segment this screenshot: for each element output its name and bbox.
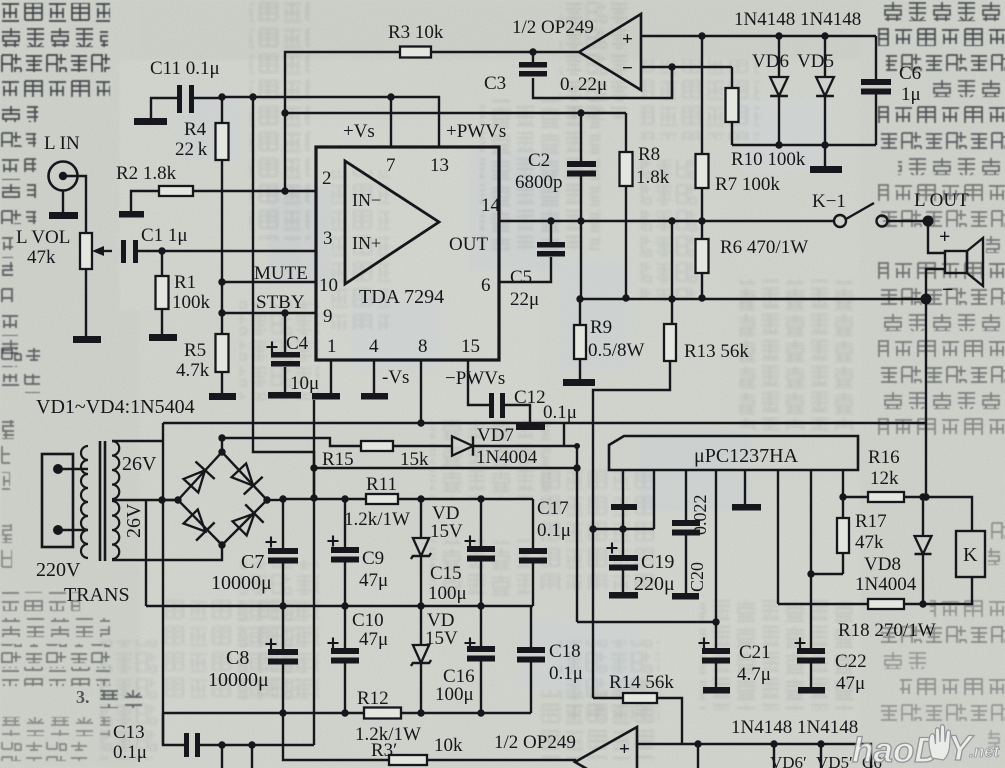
bridge right vertex xyxy=(263,496,270,503)
wire C4 bottom lead xyxy=(284,367,286,392)
svg-text:VD6: VD6 xyxy=(752,51,789,72)
ground bar under pot xyxy=(73,336,101,343)
wire long vertical C11 to bridge xyxy=(253,97,314,498)
capacitor C3 xyxy=(519,62,547,77)
junction R17 bottom node xyxy=(807,570,814,577)
junction C15 bottom xyxy=(477,602,484,609)
wire R18 line xyxy=(778,603,924,605)
svg-text:1.8k: 1.8k xyxy=(636,167,670,188)
wire C2 leads xyxy=(580,113,582,221)
svg-text:R9: R9 xyxy=(590,317,612,338)
wire R13 leads xyxy=(593,221,672,698)
µPC pin wire 8 to R16 xyxy=(842,470,844,497)
wire C19 bottom lead xyxy=(622,570,624,592)
svg-text:VD8: VD8 xyxy=(864,554,901,575)
wire C18 top lead xyxy=(530,606,532,647)
svg-text:1N4148 1N4148: 1N4148 1N4148 xyxy=(734,9,861,30)
plus sign C22 xyxy=(795,638,806,649)
wire pin 1 lead xyxy=(330,360,332,393)
L IN jack center pin xyxy=(59,172,67,180)
svg-text:14: 14 xyxy=(481,195,501,216)
resistor R4 xyxy=(216,123,229,160)
svg-text:47k: 47k xyxy=(855,532,884,553)
junction C3/R13 at minus input xyxy=(668,63,675,70)
wire line A tie at x564 xyxy=(563,423,565,446)
node speaker minus xyxy=(921,294,932,305)
svg-text:C6: C6 xyxy=(899,63,921,84)
capacitor C18 xyxy=(517,647,545,663)
junction +V tap xyxy=(279,495,286,502)
resistor R9 xyxy=(574,325,586,359)
junction VD6 bottom xyxy=(775,141,782,148)
wire -V bottom rail xyxy=(163,712,531,714)
connector 220V mains plug xyxy=(42,454,73,547)
svg-text:26V: 26V xyxy=(123,503,145,538)
svg-text:R16: R16 xyxy=(868,447,900,468)
wire C1 to TDA pin 3 xyxy=(138,250,316,252)
soft bluish scan washes xyxy=(180,90,830,690)
capacitor C22 xyxy=(797,648,825,664)
µPC pin wire 2 xyxy=(653,470,655,529)
svg-text:C11 0.1μ: C11 0.1μ xyxy=(150,58,220,79)
svg-text:47k: 47k xyxy=(27,247,56,268)
svg-text:haoD: haoD xyxy=(852,731,940,768)
wire -Vs vertical x313 xyxy=(313,400,315,745)
µPC pin wire 3 C20 xyxy=(685,470,687,520)
capacitor C19 xyxy=(609,555,638,571)
op-amp U1 1/2 OP249 triangle xyxy=(579,14,641,90)
capacitor C4 xyxy=(271,352,300,367)
wire ch2 plus input line xyxy=(637,744,871,768)
capacitor C21 xyxy=(702,648,730,664)
ground bar under pin 1 xyxy=(312,393,340,400)
svg-text:R17: R17 xyxy=(855,511,887,532)
junction -V tap xyxy=(158,496,165,503)
svg-text:C20: C20 xyxy=(687,562,707,592)
wire VD8 leads xyxy=(922,497,924,604)
wire L OUT to speaker plus xyxy=(928,221,945,253)
bridge top vertex xyxy=(218,448,225,455)
wire speaker minus lead xyxy=(926,269,945,299)
capacitor C6 xyxy=(861,79,891,95)
svg-text:C2: C2 xyxy=(528,150,550,171)
diode VD6 xyxy=(770,77,788,96)
svg-text:VD6′: VD6′ xyxy=(770,753,807,768)
µPC pin wire 6 to R18 line xyxy=(777,470,779,604)
svg-text:C7: C7 xyxy=(241,551,264,573)
svg-text:0.5/8W: 0.5/8W xyxy=(588,340,645,361)
capacitor C15 xyxy=(467,546,495,562)
wire R13 top lead xyxy=(671,67,673,98)
wire bridge-top stub xyxy=(221,438,223,452)
ground bar under jack xyxy=(49,212,78,219)
wire C17 bottom lead xyxy=(532,563,534,606)
wire VD7 return to +V rail xyxy=(314,446,577,468)
svg-text:10μ: 10μ xyxy=(290,373,319,394)
mains plug pin upper xyxy=(53,464,63,474)
junction long vertical to bridge xyxy=(249,93,256,100)
junction R1 top xyxy=(158,247,165,254)
transformer T1 secondary winding lower xyxy=(112,501,119,559)
resistor R13 xyxy=(664,324,676,361)
svg-text:10k: 10k xyxy=(434,735,463,756)
resistor R14 xyxy=(623,693,657,703)
svg-text:R2 1.8k: R2 1.8k xyxy=(116,163,177,184)
junction C7 bottom xyxy=(279,602,286,609)
svg-text:0.022: 0.022 xyxy=(690,495,710,536)
resistor R17 xyxy=(837,518,849,553)
diode VD5 xyxy=(816,77,834,96)
svg-text:1/2 OP249: 1/2 OP249 xyxy=(512,17,594,38)
capacitor C2 xyxy=(567,161,596,177)
ground bar under R5 xyxy=(209,393,236,400)
svg-text:R6 470/1W: R6 470/1W xyxy=(720,237,808,258)
wire pin 4 lead xyxy=(373,360,375,393)
plus sign C10 xyxy=(328,638,339,649)
svg-text:R8: R8 xyxy=(638,144,660,165)
svg-text:0.1μ: 0.1μ xyxy=(113,742,147,763)
wire R14 right xyxy=(657,698,682,744)
svg-text:C12: C12 xyxy=(514,387,546,408)
svg-text:IN−: IN− xyxy=(352,190,381,210)
svg-text:15: 15 xyxy=(461,336,480,357)
wire center tap line xyxy=(112,499,178,501)
wire VD6 leads xyxy=(778,36,780,145)
wire C7 top lead xyxy=(282,499,284,548)
left margin heading 3. xyxy=(76,687,90,707)
junction C5 top xyxy=(547,217,554,224)
µPC pin wire 7 to R17 node xyxy=(810,470,812,574)
wire C4 top lead xyxy=(284,313,286,352)
svg-text:4: 4 xyxy=(369,336,379,357)
transformer T1 primary winding xyxy=(81,446,88,558)
wire pot bottom to ground xyxy=(85,269,87,336)
svg-text:220μ: 220μ xyxy=(634,573,675,595)
wire C19 top lead xyxy=(622,529,624,555)
plus sign C7 xyxy=(266,537,277,548)
junction C2 bottom xyxy=(577,217,584,224)
wire C13 left stub xyxy=(163,713,184,745)
svg-text:0.1μ: 0.1μ xyxy=(543,402,577,423)
plus sign C19 xyxy=(607,543,618,554)
junction VD6' top xyxy=(694,740,701,747)
wire C6 top lead xyxy=(875,36,877,79)
junction pin7 wire xyxy=(387,93,394,100)
junction VD7 return corner xyxy=(573,464,580,471)
svg-text:R13 56k: R13 56k xyxy=(684,341,749,362)
wire R17 node to R18 line xyxy=(811,574,843,604)
svg-text:C17: C17 xyxy=(537,498,569,519)
wire x285 to IN- node xyxy=(284,113,286,191)
svg-text:STBY: STBY xyxy=(256,292,305,313)
svg-text:0. 22μ: 0. 22μ xyxy=(560,74,607,95)
ground bar under diode bus xyxy=(810,166,842,173)
svg-text:22μ: 22μ xyxy=(510,289,539,310)
resistor R15 xyxy=(361,441,393,451)
junction C16 bottom xyxy=(477,709,484,716)
terminal bar under C22 xyxy=(798,687,825,694)
wire R3' line left xyxy=(283,713,389,760)
junction ch2 stub 2 xyxy=(248,741,255,748)
wire C10 bottom lead xyxy=(344,663,346,713)
mains plug pin lower xyxy=(53,525,63,535)
µPC pin wire 4 xyxy=(715,470,717,622)
svg-text:0.1μ: 0.1μ xyxy=(537,520,571,541)
svg-text:26V: 26V xyxy=(122,453,157,475)
svg-text:C10: C10 xyxy=(352,610,384,631)
wire C5 bottom to pin 6 xyxy=(499,257,551,282)
switch K-1 right contact xyxy=(877,216,888,227)
svg-text:3.: 3. xyxy=(76,687,90,707)
wire R2 to TDA pin 2 xyxy=(193,190,316,192)
wire C22 bottom lead xyxy=(810,663,812,687)
svg-text:OUT: OUT xyxy=(449,234,488,255)
wire switch to L OUT node xyxy=(888,220,928,222)
svg-text:9: 9 xyxy=(323,306,333,327)
svg-text:47μ: 47μ xyxy=(359,629,388,650)
wire C3 bottom loop to minus input xyxy=(533,67,672,98)
junction relay drive top xyxy=(922,493,929,500)
svg-text:R4: R4 xyxy=(184,119,207,140)
junction VD5' top xyxy=(770,740,777,747)
wire C5 top lead xyxy=(550,221,552,242)
wire R9 sense vertical xyxy=(580,221,582,299)
svg-text:10000μ: 10000μ xyxy=(211,572,272,594)
wire R3 to feedback vertical xyxy=(285,52,400,113)
svg-text:.net: .net xyxy=(969,742,1001,761)
svg-text:+: + xyxy=(939,226,950,248)
right margin printed text column xyxy=(878,2,1005,747)
relay K coil box xyxy=(956,531,985,577)
junction bridge top stub xyxy=(218,434,225,441)
plus sign C15 xyxy=(465,536,476,547)
capacitor C13 xyxy=(184,733,200,757)
svg-text:10000μ: 10000μ xyxy=(208,669,269,691)
svg-text:R18 270/1W: R18 270/1W xyxy=(838,620,936,641)
wire plus input line xyxy=(641,35,876,37)
transformer T1 core xyxy=(100,441,105,561)
wire VD7 cathode run xyxy=(473,445,577,447)
svg-text:TRANS: TRANS xyxy=(64,584,130,606)
wire R8 leads xyxy=(625,113,627,298)
junction C19 top xyxy=(619,525,626,532)
svg-text:1: 1 xyxy=(327,336,337,357)
bridge diode VD1 upper-left xyxy=(181,461,214,494)
svg-text:1μ: 1μ xyxy=(901,84,921,105)
wire C21 bottom lead xyxy=(715,663,717,687)
svg-text:K: K xyxy=(963,544,978,566)
capacitor C7 xyxy=(268,548,298,564)
svg-text:R10 100k: R10 100k xyxy=(731,149,806,170)
terminal bar µPC pin5 xyxy=(732,504,761,511)
junction feedback x285 xyxy=(281,109,288,116)
capacitor C16 xyxy=(467,646,495,662)
svg-text:10: 10 xyxy=(319,275,338,296)
wire STBY line to pin 9 xyxy=(222,312,316,314)
svg-text:100k: 100k xyxy=(172,292,211,313)
svg-text:R11: R11 xyxy=(366,474,397,495)
wire C15 top lead xyxy=(480,499,482,546)
wire C10 top lead xyxy=(344,606,346,648)
wire C8 top lead xyxy=(282,606,284,649)
transformer T1 secondary winding upper xyxy=(112,441,119,499)
junction R4 top xyxy=(218,93,225,100)
wire C11 left lead xyxy=(151,98,177,118)
wire to switch K-1 xyxy=(833,220,835,222)
svg-text:R5: R5 xyxy=(184,340,206,361)
wire -V vertical x163 xyxy=(162,423,164,745)
svg-text:8: 8 xyxy=(418,336,428,357)
svg-text:1N4004: 1N4004 xyxy=(476,447,538,468)
zener diode VD 15V lower xyxy=(411,645,431,666)
resistor R1 xyxy=(156,276,169,309)
svg-text:K−1: K−1 xyxy=(812,191,846,212)
switch K-1 lever xyxy=(846,203,874,219)
wire OUT rail from pin 14 xyxy=(499,220,834,222)
junction VD5 top xyxy=(821,32,828,39)
junction R3 feedback node xyxy=(529,48,536,55)
wire C15 bottom lead xyxy=(480,561,482,606)
svg-text:VD5′: VD5′ xyxy=(816,753,853,768)
svg-text:L OUT: L OUT xyxy=(914,190,969,211)
wire C12 right lead xyxy=(505,405,530,424)
junction C15 top xyxy=(477,495,484,502)
wire secondary bottom line xyxy=(112,545,222,560)
svg-text:22 k: 22 k xyxy=(175,139,208,160)
wire C6' stub xyxy=(820,744,822,768)
junction VD5 bottom xyxy=(821,141,828,148)
wire C9 bottom lead xyxy=(344,562,346,606)
svg-text:−: − xyxy=(942,279,953,301)
resistor R7 xyxy=(696,154,709,188)
µPC pin wire 1 lower xyxy=(622,510,624,529)
faint bleed-through text patches xyxy=(100,0,860,760)
junction zener1 bottom xyxy=(417,602,424,609)
svg-text:1N4004: 1N4004 xyxy=(855,574,917,595)
svg-text:13: 13 xyxy=(430,155,449,176)
speaker LS1 body xyxy=(945,251,967,273)
wire C21 top lead xyxy=(715,622,717,648)
junction STBY left xyxy=(218,309,225,316)
resistor R3' xyxy=(389,755,427,765)
wire R1 leads xyxy=(161,251,163,334)
junction R13 crossing on sense line xyxy=(668,295,675,302)
svg-text:47μ: 47μ xyxy=(836,673,865,694)
junction VD8 bottom xyxy=(919,600,926,607)
terminal bar under C21 xyxy=(703,687,730,694)
junction zener2 bottom xyxy=(417,709,424,716)
wire 0V mid rail xyxy=(146,605,533,607)
wire +V rail y499 xyxy=(283,498,533,500)
wire C16 top lead xyxy=(480,606,482,646)
svg-text:C13: C13 xyxy=(113,722,145,743)
junction protection sense to µPC xyxy=(589,525,596,532)
resistor R3 xyxy=(400,47,431,58)
wire C18 bottom lead xyxy=(530,662,532,713)
svg-text:C1 1μ: C1 1μ xyxy=(141,225,188,246)
svg-text:+: + xyxy=(619,739,630,760)
capacitor C20 xyxy=(672,520,700,536)
junction R9 top on sense line xyxy=(576,295,583,302)
svg-text:C19: C19 xyxy=(641,551,674,573)
capacitor C9 xyxy=(331,547,359,563)
svg-text:C15: C15 xyxy=(430,563,462,584)
capacitor C5 xyxy=(537,242,565,257)
wire sense column x926 xyxy=(925,299,927,497)
switch K-1 left contact xyxy=(834,215,846,227)
resistor R6 xyxy=(696,239,709,273)
svg-text:7: 7 xyxy=(386,155,396,176)
wire R16 line xyxy=(843,497,972,531)
svg-text:47μ: 47μ xyxy=(359,570,388,591)
wire minus input line xyxy=(641,66,732,68)
junction x314 on VD7 return xyxy=(310,464,317,471)
ground bar at C11 left xyxy=(134,118,167,125)
svg-text:6: 6 xyxy=(481,275,491,296)
svg-text:3: 3 xyxy=(323,228,333,249)
junction mute feed tee xyxy=(574,443,580,449)
junction R6 top xyxy=(698,217,705,224)
wire mute feed to R15 xyxy=(222,438,361,446)
plus sign C9 xyxy=(328,536,339,547)
ground bar under R1 xyxy=(149,334,177,341)
junction x314 bottom on +V rail xyxy=(310,494,317,501)
wire diode bottoms bus xyxy=(732,144,876,146)
wire jack to volume pot xyxy=(63,176,86,233)
junction pin 8 on -V rail xyxy=(417,419,424,426)
svg-text:C22: C22 xyxy=(835,651,867,672)
junction ch2 stub 1 xyxy=(218,741,225,748)
capacitor C8 xyxy=(268,649,298,665)
wire pin 8 lead to -V rail xyxy=(420,360,422,423)
svg-text:C18: C18 xyxy=(549,641,581,662)
potentiometer L VOL 47k body xyxy=(80,233,92,269)
wire VD6' stub xyxy=(697,744,699,768)
wire relay bottom lead xyxy=(924,577,972,604)
svg-text:R3 10k: R3 10k xyxy=(388,22,444,43)
wire µPC sense input line xyxy=(591,528,654,530)
svg-text:VD5: VD5 xyxy=(797,51,834,72)
resistor R10 xyxy=(726,88,739,122)
wire R4 column xyxy=(221,97,223,334)
svg-text:VD7: VD7 xyxy=(477,425,514,446)
ground bar under R9 xyxy=(563,379,595,386)
junction C10 bottom xyxy=(341,709,348,716)
wire protection feed y622 xyxy=(577,621,716,623)
svg-text:TDA 7294: TDA 7294 xyxy=(359,286,444,308)
ground bar under C4 xyxy=(268,392,301,399)
svg-text:R7 100k: R7 100k xyxy=(715,174,780,195)
wire feedback sense line y299 xyxy=(580,298,926,300)
bridge diode VD4 lower-right xyxy=(230,504,263,537)
svg-text:R1: R1 xyxy=(174,272,196,293)
wire C13 line to -Vs vertical xyxy=(200,744,314,746)
op-amp U4 1/2 OP249 channel-2 triangle xyxy=(575,727,637,768)
svg-text:-Vs: -Vs xyxy=(382,367,409,388)
svg-text:IN+: IN+ xyxy=(352,233,381,253)
svg-text:μPC1237HA: μPC1237HA xyxy=(694,445,799,467)
bridge rectifier diamond xyxy=(178,452,267,545)
wire plug to primary upper xyxy=(58,468,88,470)
wire VD5 leads xyxy=(824,36,826,145)
junction C8 bottom xyxy=(279,709,286,716)
terminal bar under C19 xyxy=(609,592,638,599)
capacitor C17 xyxy=(519,548,547,564)
terminal bar under C20 xyxy=(672,593,699,600)
wire pin 15 lead to C12 xyxy=(468,360,489,405)
plus sign C8 xyxy=(266,639,277,650)
svg-text:100μ: 100μ xyxy=(435,684,474,705)
